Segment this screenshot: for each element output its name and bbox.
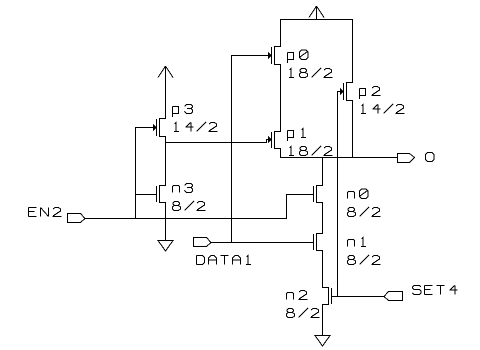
- ground symbol under n3: [158, 241, 173, 252]
- label p3 size: [174, 123, 179, 132]
- transistor n1: [316, 233, 323, 235]
- wire VDD rail to p0 source: [280, 19, 282, 47]
- transistor p1: [274, 131, 281, 133]
- label p1 name: [288, 131, 294, 142]
- label p0 name: [288, 53, 294, 64]
- wire node O to n0 drain: [322, 157, 324, 186]
- wire n0 source to n1 drain: [322, 202, 324, 234]
- power symbol VDD arrow at p3: [165, 66, 167, 119]
- label SET4 text: [413, 286, 422, 295]
- label n1 size: [348, 256, 356, 265]
- wire DATA1 to n1 gate: [211, 242, 314, 244]
- label p2 name: [360, 89, 366, 100]
- transistor p0: [274, 46, 281, 48]
- wire n3 source to ground: [165, 202, 167, 241]
- wire VDD rail to p2 source: [352, 19, 354, 83]
- VDD rail top: [280, 19, 353, 21]
- wire EN2 jog to n0 gate: [286, 194, 288, 219]
- wire p0 drain to p1 source: [280, 64, 282, 132]
- wire p1 drain to node O: [280, 148, 282, 158]
- power symbol VDD top arrow: [316, 6, 318, 20]
- ground symbol under n2: [315, 336, 330, 347]
- port EN2: [68, 214, 86, 223]
- wire p2 gate to SET4 net: [337, 91, 339, 297]
- label p3 name: [173, 107, 179, 118]
- label O text: [426, 153, 435, 162]
- label n3 name: [173, 186, 180, 193]
- label p0 size: [289, 69, 294, 78]
- wire EN2 riser to p3 n3 gates: [135, 127, 137, 219]
- wire p2 gate: [337, 91, 340, 93]
- label EN2 text: [29, 208, 37, 217]
- label n2 size: [287, 309, 295, 318]
- label n1 name: [348, 240, 355, 247]
- wire DATA1 riser to p0 gate: [231, 55, 233, 243]
- transistor p2: [346, 82, 353, 84]
- label n3 size: [173, 202, 181, 211]
- transistor p3: [159, 118, 166, 120]
- label DATA1 text: [197, 256, 205, 265]
- wire p2 drain to node O: [352, 100, 354, 158]
- wire EN2: [85, 218, 287, 220]
- wire n3 gate: [135, 194, 157, 196]
- wire node O: [280, 157, 398, 159]
- wire n1 source to n2 drain: [322, 250, 324, 288]
- label p2 size: [361, 105, 366, 114]
- port O: [398, 154, 415, 163]
- wire p3 gate: [135, 127, 153, 129]
- transistor n0: [316, 185, 323, 187]
- port SET4: [384, 292, 403, 301]
- wire inverter out to p1 gate: [165, 142, 267, 144]
- wire p1 gate jog: [266, 139, 268, 141]
- transistor n2 mirrored: [322, 287, 329, 289]
- label n0 size: [348, 208, 356, 217]
- transistor n3: [159, 185, 166, 187]
- label p1 size: [289, 147, 294, 156]
- wire n2 gate to SET4: [331, 296, 385, 298]
- wire n2 source to ground: [322, 304, 324, 336]
- label n0 name: [348, 192, 355, 199]
- wire p0 gate: [231, 55, 268, 57]
- label n2 name: [287, 293, 294, 300]
- wire p3 drain to n3 drain: [165, 136, 167, 186]
- port DATA1: [194, 238, 212, 247]
